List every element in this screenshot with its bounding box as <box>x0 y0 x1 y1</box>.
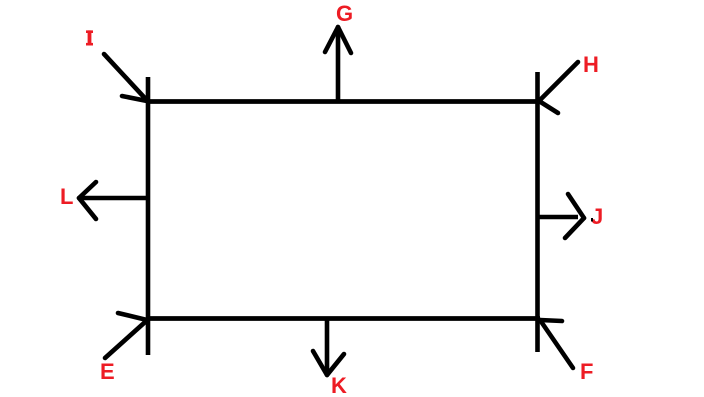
svg-text:K: K <box>331 373 347 397</box>
svg-text:L: L <box>60 184 73 209</box>
node I label (serifed capital I) <box>86 30 93 45</box>
node H arrow (into top-right corner) <box>539 62 578 113</box>
svg-text:H: H <box>583 52 599 77</box>
svg-text:G: G <box>336 1 353 26</box>
wire right edge of rectangle <box>535 72 540 352</box>
wire left edge of rectangle <box>146 77 151 355</box>
node K arrow (bottom, pointing down) <box>313 318 344 375</box>
svg-text:E: E <box>100 359 115 384</box>
node G arrow (top, pointing up) <box>325 27 351 101</box>
node F arrow (into bottom-right corner) <box>540 320 573 368</box>
wire top edge of rectangle <box>146 99 540 104</box>
stray black mark left of J <box>591 218 593 222</box>
node E arrow (into bottom-left corner) <box>105 313 149 358</box>
wire bottom edge of rectangle <box>146 316 540 321</box>
svg-text:F: F <box>580 359 593 384</box>
svg-text:J: J <box>591 204 603 229</box>
node J arrow (right, pointing right) <box>539 194 584 238</box>
node L arrow (left, pointing left) <box>79 182 146 219</box>
node I arrow (into top-left corner) <box>104 54 149 102</box>
